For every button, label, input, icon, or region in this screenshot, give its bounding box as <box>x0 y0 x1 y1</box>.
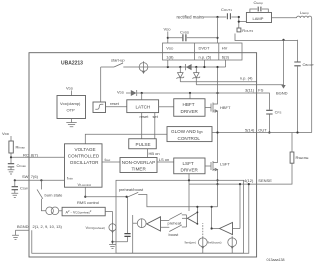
svg-text:CBOOT: CBOOT <box>303 62 315 67</box>
svg-text:RSENSE: RSENSE <box>296 155 309 160</box>
svg-text:CVDD: CVDD <box>180 30 190 35</box>
svg-text:BGND: BGND <box>276 91 288 96</box>
svg-text:VDD: VDD <box>66 86 74 91</box>
svg-text:reset: reset <box>140 114 150 119</box>
svg-text:rectified mains: rectified mains <box>177 14 205 19</box>
svg-text:Iset(pre): Iset(pre) <box>185 240 196 245</box>
svg-text:CONTROLLED: CONTROLLED <box>68 153 100 158</box>
svg-text:PULSE: PULSE <box>136 142 151 147</box>
svg-text:013aaa138: 013aaa138 <box>267 258 285 262</box>
svg-text:VDD: VDD <box>2 131 10 136</box>
svg-text:CFS: CFS <box>275 110 282 115</box>
svg-text:Rfmax: Rfmax <box>16 145 26 150</box>
svg-text:set: set <box>153 114 159 119</box>
svg-text:FS: FS <box>258 87 263 92</box>
svg-text:LSFT: LSFT <box>220 161 230 166</box>
svg-text:8(7): 8(7) <box>31 153 39 158</box>
svg-text:Llamp: Llamp <box>300 10 309 15</box>
svg-text:HBFT: HBFT <box>183 102 195 107</box>
svg-text:3(11): 3(11) <box>245 87 255 92</box>
svg-text:VOLTAGE: VOLTAGE <box>75 147 96 152</box>
svg-text:burn state: burn state <box>45 192 64 197</box>
svg-text:OSCILLATOR: OSCILLATOR <box>70 160 99 165</box>
svg-text:CSW: CSW <box>20 186 28 191</box>
svg-text:RC: RC <box>23 153 29 158</box>
svg-text:VDD: VDD <box>164 27 172 32</box>
svg-text:n.p. (4): n.p. (4) <box>240 75 253 80</box>
svg-text:2(1, 2, 9, 10, 13): 2(1, 2, 9, 10, 13) <box>33 224 63 229</box>
svg-text:LATCH: LATCH <box>136 105 151 110</box>
svg-text:OTP: OTP <box>67 108 76 113</box>
svg-text:boost: boost <box>169 232 180 237</box>
svg-text:DRIVER: DRIVER <box>181 109 199 114</box>
svg-text:HV: HV <box>222 45 228 50</box>
svg-text:fmin: fmin <box>67 175 73 180</box>
svg-text:HBFT: HBFT <box>220 105 231 110</box>
svg-text:TIMER: TIMER <box>132 167 147 172</box>
svg-text:5(14): 5(14) <box>245 127 255 132</box>
svg-text:OUT: OUT <box>258 127 267 132</box>
svg-text:GLOW AND Iign: GLOW AND Iign <box>171 129 203 134</box>
svg-text:4(12): 4(12) <box>244 178 254 183</box>
svg-text:reset: reset <box>110 101 120 106</box>
svg-text:LSFT: LSFT <box>183 161 194 166</box>
svg-text:LAMP: LAMP <box>253 16 264 21</box>
svg-text:RMS control: RMS control <box>77 200 99 205</box>
svg-text:SW: SW <box>22 174 29 179</box>
svg-text:7(6): 7(6) <box>31 174 39 179</box>
svg-text:DVDT: DVDT <box>199 45 210 50</box>
svg-text:NON-OVERLAP: NON-OVERLAP <box>122 160 155 165</box>
svg-text:UBA2213: UBA2213 <box>61 61 83 67</box>
svg-text:ROUT2: ROUT2 <box>242 28 253 33</box>
svg-text:preheat/boost: preheat/boost <box>119 187 144 192</box>
svg-text:BGND: BGND <box>17 224 29 229</box>
svg-text:HB on: HB on <box>149 151 160 156</box>
svg-text:Vf-control: Vf-control <box>78 182 92 187</box>
svg-text:VCO(preheat): VCO(preheat) <box>86 225 105 230</box>
svg-text:VDD: VDD <box>117 90 125 95</box>
svg-text:start-up: start-up <box>111 58 125 63</box>
svg-text:COUT1: COUT1 <box>221 7 232 12</box>
svg-text:VDD: VDD <box>166 45 174 50</box>
svg-text:fosc: fosc <box>105 157 111 162</box>
svg-text:LS on: LS on <box>159 157 169 162</box>
svg-text:DRIVER: DRIVER <box>181 168 199 173</box>
svg-text:Iref(boost): Iref(boost) <box>208 240 222 245</box>
svg-text:n.p. (5): n.p. (5) <box>199 54 212 59</box>
svg-text:VDD(clamp): VDD(clamp) <box>60 101 81 106</box>
svg-text:Cfmax: Cfmax <box>17 163 27 168</box>
svg-text:Clamp: Clamp <box>254 0 264 5</box>
svg-text:preheat: preheat <box>168 220 182 225</box>
svg-text:CONTROL: CONTROL <box>178 136 201 141</box>
svg-text:1(8): 1(8) <box>166 54 174 59</box>
svg-text:SENSE: SENSE <box>258 178 272 183</box>
svg-text:6(3): 6(3) <box>222 54 230 59</box>
